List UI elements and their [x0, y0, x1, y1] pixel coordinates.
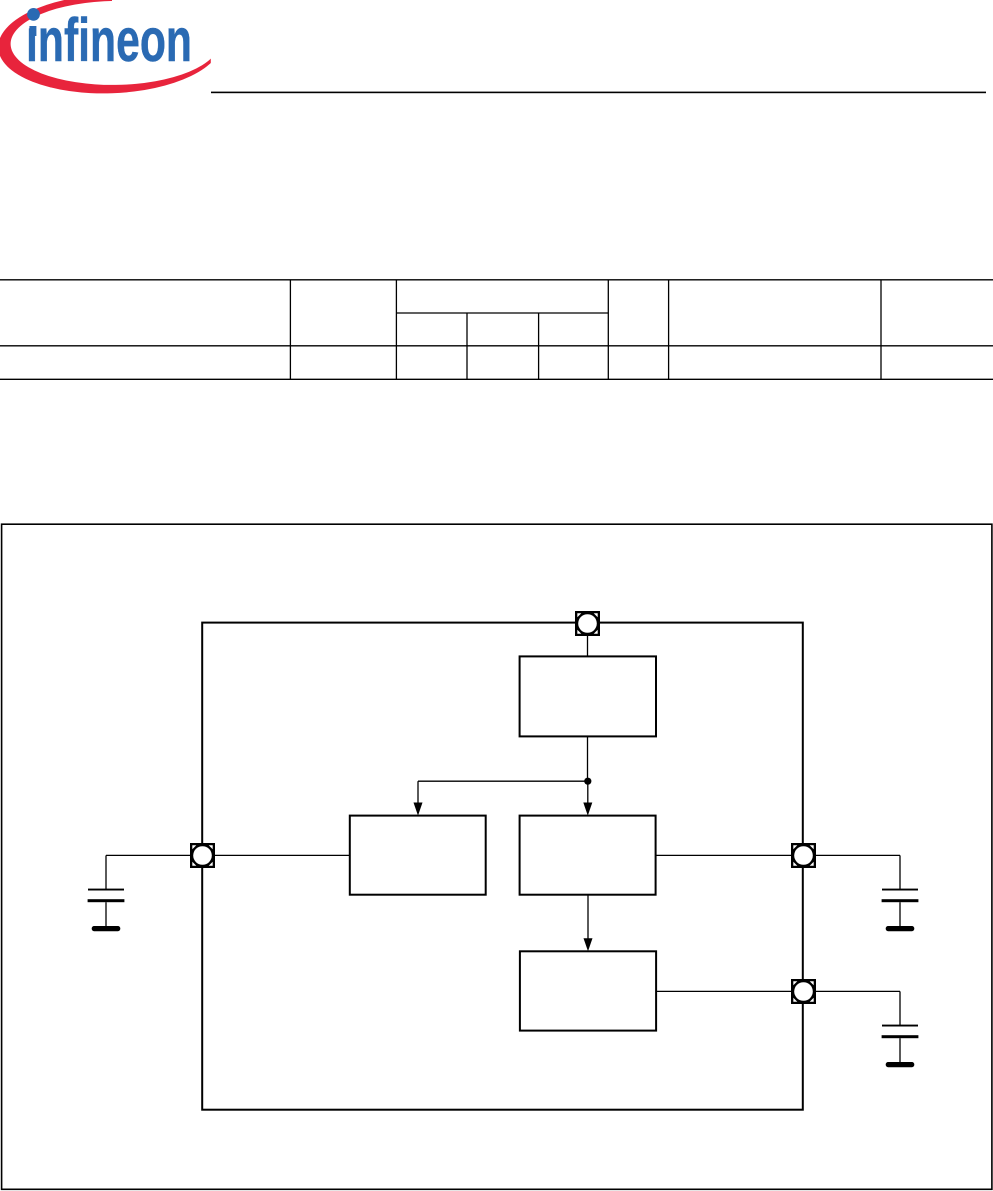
svg-text:ınfineon: ınfineon	[26, 6, 192, 74]
